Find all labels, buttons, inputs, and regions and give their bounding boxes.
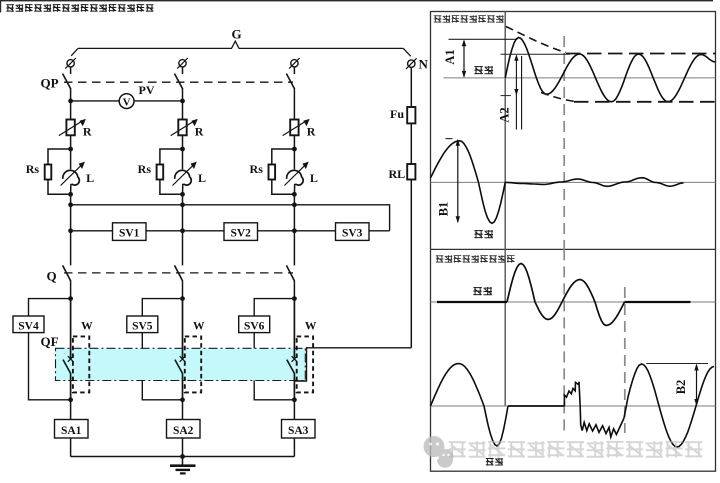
terminal N [408,60,415,67]
wire Rs branch phase 1 [48,149,71,194]
axis line (making test) [504,12,506,250]
svg-text:A1: A1 [443,49,457,64]
resistor R phase 2 [178,120,186,136]
B1 dimension arrow [457,141,459,222]
node below QF pole 1 [68,397,73,402]
svg-text:Rs: Rs [138,162,152,176]
node below Q pole 2 [180,296,185,301]
resistor R phase 3 [290,120,298,136]
divider dash-dot vertical 1 [563,36,565,249]
junction line B phase 3 [292,228,297,233]
current zero line (bottom) [431,301,716,303]
breaker QF pole 2 [182,299,184,359]
node bottom of Rs/L phase 3 [292,192,297,197]
sensor box W pole 3 (dashed) [297,336,313,392]
envelope bottom (dashed curve) [541,93,574,102]
current post-interruption flat [625,301,691,303]
wire SA3 to bottom bus [293,438,295,457]
recovery voltage jagged [564,382,624,437]
node phase 1 / PV tap [68,99,73,104]
svg-text:G: G [232,27,242,42]
svg-text:SA1: SA1 [61,425,82,437]
box SV6 [239,316,270,333]
wire SA1 to bottom bus [70,438,72,457]
wire node to line A phase 1 [70,194,72,231]
wire SV5 branch [142,299,182,400]
wire node to line A phase 3 [293,194,295,231]
node top of Rs/L phase 1 [68,147,73,152]
svg-text:QP: QP [41,76,59,91]
bottom bus [71,456,295,458]
svg-text:W: W [81,321,93,333]
A2 dimension leader lines [515,56,517,130]
A2 reference top line [501,53,571,55]
title 短路接通能力和分断能力的型式试验电路 [6,4,153,11]
current waveform (setting) [505,38,715,102]
node phase 2 / PV tap [180,99,185,104]
label 电流 (top) [474,66,493,74]
switch Q pole 3 [293,231,295,266]
breaker QF pole 1 [70,299,72,359]
node below Q pole 3 [292,296,297,301]
svg-text:SV5: SV5 [132,320,153,332]
wire node to SA2 [182,400,184,420]
sensor box W pole 2 (dashed) [185,336,201,392]
switch Q pole 2 [182,231,184,266]
A2 reference bottom tick [501,95,511,97]
envelope top (dashed curve) [506,27,566,53]
panel divider [431,248,716,250]
node ground tap [180,454,185,459]
wire W pole3 to neutral column [294,348,411,381]
wire into L phase 2 [182,149,184,169]
voltage waveform post-arc [624,364,714,447]
svg-text:PV: PV [139,83,155,97]
voltmeter PV [119,94,134,109]
QP linkage dashed [64,81,293,83]
box SA3 [282,420,316,439]
box SA2 [167,420,201,439]
wire L to node phase 2 [182,184,184,195]
wire bus to N terminal [403,48,410,56]
wire Rs branch phase 3 [272,149,295,194]
terminal phase 1 [67,60,74,67]
B2 reference line [646,363,708,365]
divider dashed vertical 2 [624,287,626,433]
svg-text:QF: QF [41,334,59,349]
generator bus G [78,41,403,48]
svg-text:R: R [195,125,204,139]
resistor R phase 1 [66,120,74,136]
wire node to SA3 [293,400,295,420]
inductor L phase 1 [63,170,80,185]
label 电压 (bottom) [486,458,503,465]
box SA1 [55,420,89,439]
node top of Rs/L phase 2 [180,147,185,152]
wire node to SA1 [70,400,72,420]
sensor box W pole 1 (dashed) [73,336,89,392]
box SV1 [113,223,147,241]
wire SV4 branch [29,299,71,400]
wire L to node phase 1 [70,184,72,195]
svg-text:N: N [419,57,429,72]
switch QP pole 1 [70,67,72,74]
B2 dimension arrow [696,365,698,405]
axis line (breaking test) [504,249,506,406]
voltage zero line (top) [431,181,716,183]
svg-text:V: V [123,97,131,109]
box SV3 [336,223,370,241]
node top of Rs/L phase 3 [292,147,297,152]
resistor RL [407,164,415,180]
top image edge [0,0,713,1]
resistor Rs phase 2 [157,165,164,180]
svg-text:Fu: Fu [390,107,404,121]
inductor L phase 3 [287,170,304,185]
oscillogram panel frame [431,12,716,472]
node bottom of Rs/L phase 1 [68,192,73,197]
svg-text:Rs: Rs [26,162,40,176]
switch Q pole 1 [70,231,72,266]
switch QP pole 3 [293,67,295,74]
resistor Rs phase 1 [45,165,52,180]
fuse Fu [407,107,415,123]
voltage zero line (bottom) [431,405,716,407]
svg-text:SV6: SV6 [244,320,265,332]
A1 dimension arrow [463,41,465,77]
svg-text:L: L [310,171,318,185]
junction line B phase 1 [68,228,73,233]
junction line A phase 2 [180,202,185,207]
wire node to line A phase 2 [182,194,184,231]
voltage waveform (setting) [431,141,684,224]
svg-text:RL: RL [389,167,406,181]
wire QP blade to node, phase 3 [293,88,295,120]
svg-text:R: R [307,125,316,139]
wire QP blade to node, phase 1 [70,88,72,120]
wire R to node phase 1 [70,135,72,149]
wire R to node phase 3 [293,135,295,149]
terminal phase 2 [179,60,186,67]
B1 peak tick [446,138,453,140]
svg-text:W: W [193,321,205,333]
junction line A phase 3 [292,202,297,207]
wire L to node phase 3 [293,184,295,195]
svg-text:Rs: Rs [250,162,264,176]
svg-text:L: L [86,171,94,185]
svg-text:SV1: SV1 [119,228,140,240]
voltage waveform pre-arc [431,364,509,447]
wire QP blade to node, phase 2 [182,88,184,120]
panel title 分断或通断试验波形 [436,255,515,262]
svg-text:SV4: SV4 [18,320,39,332]
svg-text:SA3: SA3 [288,425,309,437]
switch QP pole 2 [182,67,184,74]
wire bus to phase A terminal [71,48,78,55]
node bottom of Rs/L phase 2 [180,192,185,197]
wire SA2 to bottom bus [182,438,184,457]
wire N column [410,67,412,348]
box SV5 [127,316,158,333]
wire into L phase 3 [293,149,295,169]
inductor L phase 2 [175,170,192,185]
watermark wechat icon [424,436,454,468]
wire into L phase 1 [70,149,72,169]
junction line A phase 1 [68,202,73,207]
QF device band (cyan) [56,348,306,380]
ground [182,457,184,466]
node below QF pole 2 [180,397,185,402]
node below QF pole 3 [292,397,297,402]
Q linkage dashed [64,272,293,274]
label 电流 (bottom) [473,287,492,295]
terminal phase 3 [291,60,298,67]
svg-text:B2: B2 [674,380,688,395]
bus line B (SV row) [71,230,390,232]
svg-text:SV3: SV3 [342,228,363,240]
label 电压 (top) [474,230,493,238]
breaker QF pole 3 [293,299,295,359]
panel title 试验电路整定波形 [434,15,504,22]
wire SV6 branch [254,299,294,400]
node below Q pole 1 [68,296,73,301]
svg-text:A2: A2 [498,107,512,122]
wire Rs branch phase 2 [160,149,183,194]
wire phase1 node to PV to phase2 [71,100,183,102]
watermark text 公众号:知乎@电气知识课堂 [449,441,703,458]
wire R to node phase 2 [182,135,184,149]
current zero line (top) [444,77,716,79]
svg-text:B1: B1 [437,202,451,217]
svg-text:R: R [83,125,92,139]
current waveform (breaking) [507,264,625,326]
svg-text:W: W [305,321,317,333]
box SV4 [13,316,44,333]
svg-text:L: L [198,171,206,185]
bus line A [71,205,390,231]
box SV2 [224,223,258,241]
svg-text:SA2: SA2 [173,425,194,437]
svg-text:Q: Q [47,269,57,284]
svg-text:SV2: SV2 [230,228,251,240]
resistor Rs phase 3 [269,165,276,180]
junction line B phase 2 [180,228,185,233]
current pre-fault flat [437,301,507,303]
A1 reference line [449,38,518,40]
